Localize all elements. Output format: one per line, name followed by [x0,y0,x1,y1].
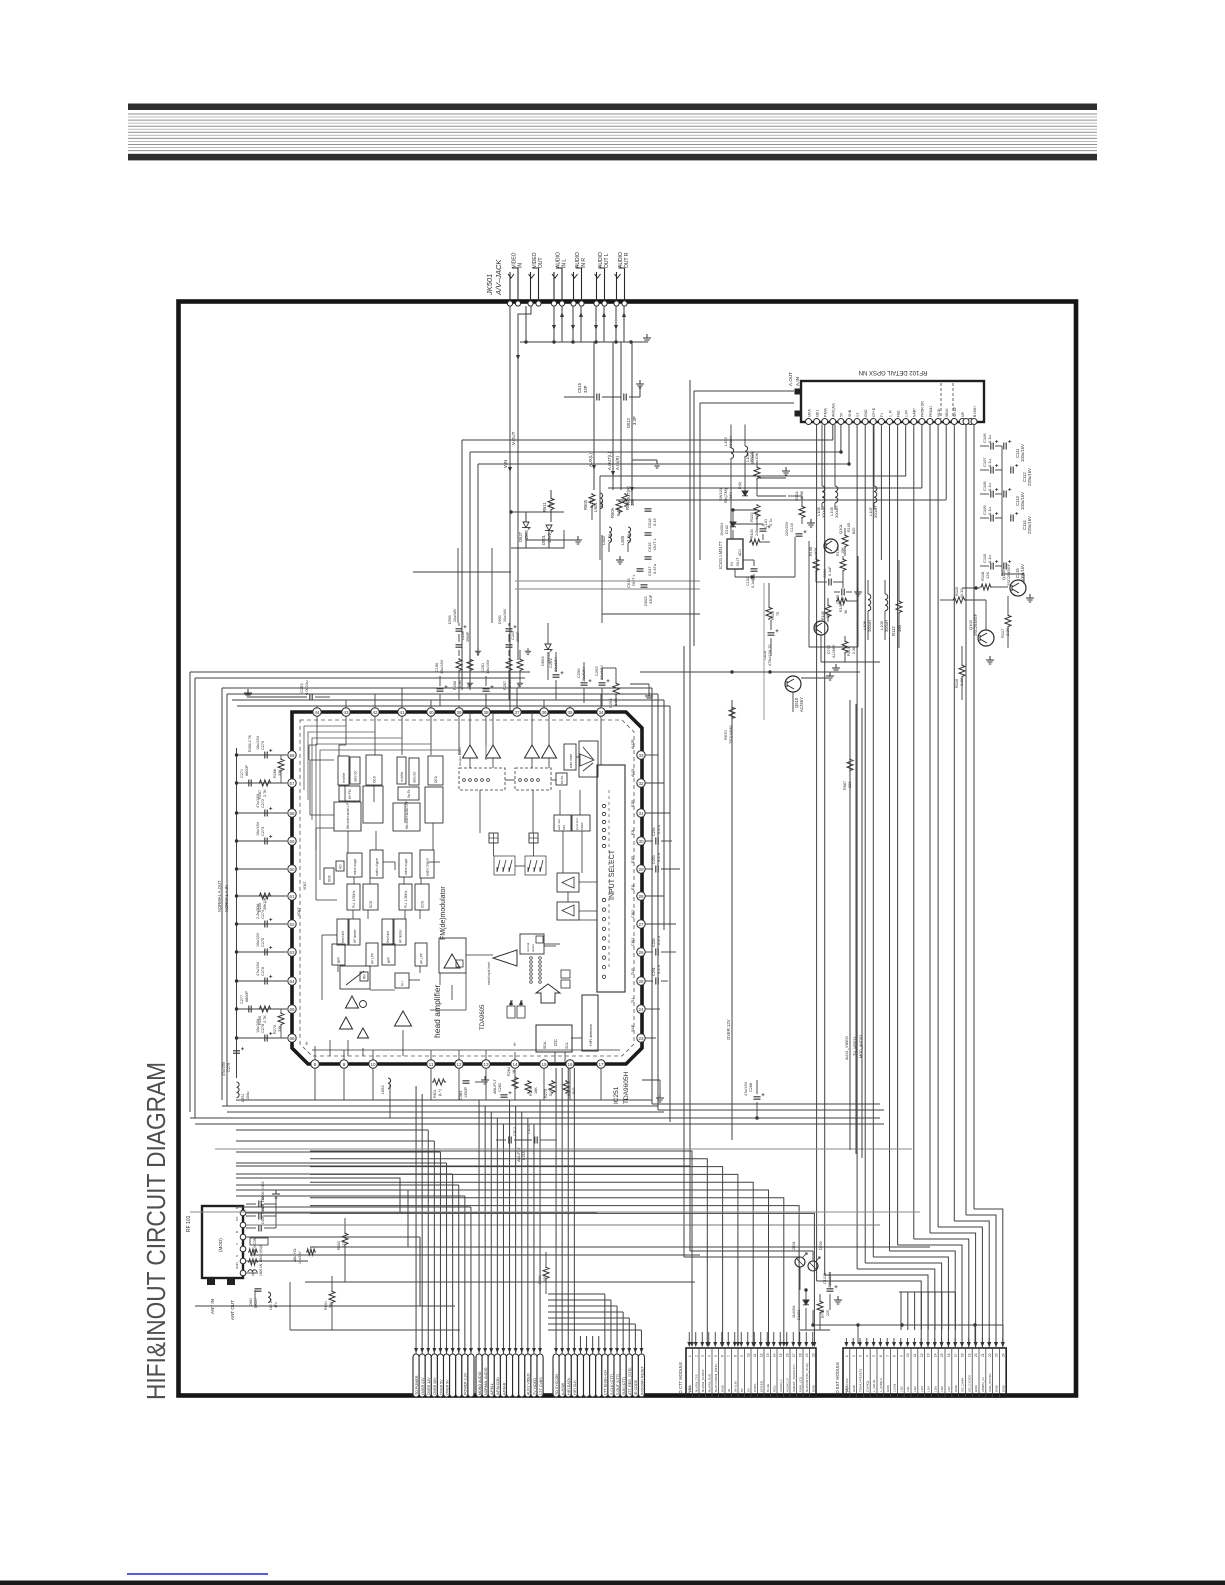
svg-text:R103: R103 [750,529,754,538]
resistor R602 223 [337,1218,348,1258]
svg-text:10u/16V: 10u/16V [581,667,586,682]
svg-text:L_VALID: L_VALID [872,1379,876,1392]
svg-text:19: 19 [805,1353,809,1357]
wire long verticals below cluster [355,700,508,1306]
connector pill TO SYSCON [553,1354,559,1397]
svg-text:LD7: LD7 [947,1386,951,1392]
wire right pin stubs [645,755,676,1038]
svg-text:65: 65 [289,1007,295,1012]
capacitor C613 0.47u [626,569,644,588]
connector pill SUN (CTT) [620,1354,626,1397]
svg-text:L505: L505 [620,535,625,545]
svg-text:43: 43 [343,710,349,715]
IC inner volume tri box 2 [557,902,579,920]
connector pin 16 AUDIO_R [784,1348,790,1397]
connector pin 13 LD4 [925,1348,931,1397]
ground zener cluster [526,536,582,544]
connector pill S.CLK (CTT) [608,1354,614,1397]
svg-text:R105: R105 [847,523,851,532]
connector pill OVER 9V [444,1354,450,1397]
wire cluster horizontals [413,535,700,631]
capacitor C261 13u/16V [481,659,494,706]
svg-text:36V: 36V [728,492,733,499]
svg-text:A/FM-L: A/FM-L [490,1383,494,1395]
svg-text:NORMAL A.OUT: NORMAL A.OUT [217,880,222,912]
svg-text:47u/16V: 47u/16V [222,1061,226,1076]
svg-text:HIFI DATA: HIFI DATA [567,1378,571,1395]
svg-text:2: 2 [852,1355,856,1357]
IC inner block amp [425,787,443,823]
svg-text:A1266Y: A1266Y [799,697,804,712]
svg-text:59: 59 [289,839,295,844]
svg-text:0.1u: 0.1u [987,507,992,515]
main schematic border frame [179,302,1077,1396]
svg-text:3K: 3K [844,609,848,614]
transistor Q610 A1266Y [785,676,804,712]
svg-text:17: 17 [598,1062,604,1067]
capacitor C274 2.2u/50V [235,903,287,927]
connector pin 21 22MHz_un [979,1348,985,1397]
IC inner bottom rail wires [305,1041,620,1060]
connector pill AUX1 VIDEO [525,1354,531,1397]
connector pin 23 GND [993,1348,999,1397]
svg-text:25: 25 [638,979,644,984]
IC inner block W+FM [339,786,360,801]
svg-text:E1L: E1L [631,884,635,890]
svg-text:OUT L: OUT L [631,574,636,586]
wire ring right verticals [648,342,813,1257]
svg-text:2SC2545GF: 2SC2545GF [973,613,978,636]
connector pin 22 UNR_5V/16V [986,1348,992,1397]
svg-text:L653: L653 [381,1086,385,1094]
svg-text:100u/16V: 100u/16V [1020,492,1025,510]
ground IC bottom right [642,1080,664,1102]
svg-text:1N4004: 1N4004 [792,1305,796,1318]
IC inner op-amp triangles left [340,971,412,1038]
svg-text:R505: R505 [583,499,588,510]
svg-text:PRO41: PRO41 [929,406,933,417]
connector pill A/FM-R [500,1354,506,1397]
svg-text:RF 101: RF 101 [186,1215,192,1232]
svg-text:33: 33 [638,753,644,758]
capacitor C104 0.1uF [816,566,843,586]
svg-text:58: 58 [289,811,295,816]
svg-text:C248: C248 [461,631,465,640]
svg-text:12: 12 [920,1353,924,1357]
wire RF102 A.OUT feed [700,403,794,560]
svg-text:10K: 10K [754,453,759,460]
svg-text:HF LPF: HF LPF [370,953,374,964]
resistor R117 2.2K [1000,596,1011,648]
inductor L105 300uH [829,425,839,519]
svg-text:C279: C279 [227,1063,231,1072]
svg-text:40: 40 [428,710,434,715]
svg-text:2.7K: 2.7K [263,789,267,797]
svg-text:D102: D102 [725,525,729,534]
connector pin 17 GND [952,1348,958,1397]
svg-text:KBER: KBER [580,822,584,830]
RF101 terminal ANT OUT [227,1278,235,1320]
inductor L501 300 [593,493,604,512]
svg-text:rectifier: rectifier [342,772,346,783]
svg-text:35: 35 [567,710,573,715]
svg-text:SH-CF: SH-CF [953,407,957,417]
svg-text:6800P: 6800P [245,765,249,776]
svg-text:noise suppr: noise suppr [404,858,408,875]
wire EXT cell stub feeds [844,1338,1004,1347]
svg-text:CVBS: CVBS [753,1384,757,1392]
svg-text:4.7K: 4.7K [754,511,759,520]
svg-text:HD: HD [338,864,342,869]
resistor R277 510 [563,1080,576,1096]
label C601 10u/16V [293,1248,316,1264]
svg-text:14: 14 [772,1353,776,1357]
svg-text:47u/16V: 47u/16V [744,1081,748,1096]
svg-text:M +: M + [400,980,404,986]
connector pill power nc [450,1354,456,1397]
IC inner block rectifier [397,757,406,784]
resistor R50A 5.1K [610,500,622,518]
svg-text:39: 39 [456,710,462,715]
IC inner block level det [382,919,393,945]
svg-text:E2R: E2R [631,800,635,807]
svg-text:47u/16V: 47u/16V [256,793,260,808]
svg-text:L60 1N: L60 1N [269,1299,273,1310]
svg-text:0.15: 0.15 [652,517,657,526]
IC inner block PLL 1.5MHz [347,884,360,910]
svg-text:R112: R112 [891,626,896,636]
regulator IC101 LM317T [718,539,743,569]
svg-text:C271: C271 [240,769,244,778]
svg-text:0.47u: 0.47u [652,564,657,574]
IC inner KBER box [572,815,590,831]
svg-text:OCA: OCA [372,775,376,783]
svg-text:OCA: OCA [434,775,438,783]
svg-text:GND: GND [1001,1384,1005,1392]
svg-text:GND: GND [864,409,868,417]
svg-text:MONO AUDIO: MONO AUDIO [478,1371,482,1395]
svg-text:SELK: SELK [945,408,949,417]
capacitor C116 220u/25V [785,521,807,536]
svg-text:9+: 9+ [513,1042,517,1046]
wire AUX(L) down [588,342,596,490]
svg-text:R611: R611 [433,1089,437,1098]
IC inner block RN [360,972,368,981]
svg-text:3.3K: 3.3K [959,677,964,686]
IC inner block HD [336,861,344,871]
svg-text:3: 3 [701,1355,705,1357]
connector pin 4 NU/SW_RxD [706,1348,712,1397]
capacitor C282 47u/16V [493,1079,512,1098]
svg-text:CTT ENSN-434: CTT ENSN-434 [604,1370,608,1395]
bus left drop wires from RF102 runs [462,440,616,690]
connector pin 17 SMART_SQUELCH [790,1348,796,1397]
svg-text:I2C_CLOCK: I2C_CLOCK [967,1374,971,1392]
svg-text:C276: C276 [261,967,265,976]
svg-text:P4(M): P4(M) [824,408,828,417]
svg-text:R611: R611 [542,502,547,512]
connector pin 3 TO(NU=RESET) [857,1348,863,1397]
svg-text:HIFI CLK: HIFI CLK [573,1380,577,1395]
jack J4 AUDIO IN R [572,252,588,302]
capacitor C110 0.1u [980,553,1002,570]
svg-text:57: 57 [289,781,295,786]
svg-text:R50A: R50A [610,507,615,518]
svg-text:32: 32 [638,781,644,786]
wire bus lower horizontals [190,1149,930,1330]
IC inner I2C box [536,1025,572,1052]
IC inner HIFI detector box [582,995,598,1051]
IC inner FM mod triangle [444,954,463,968]
connector pin 8 LC(A) [891,1348,897,1397]
svg-text:level det: level det [341,931,345,943]
svg-text:GND: GND [974,1384,978,1392]
svg-text:UB A: UB A [807,409,811,417]
svg-text:I2C: I2C [553,1038,558,1046]
svg-text:22: 22 [988,1353,992,1357]
resistor R112 100 [891,560,902,648]
svg-text:D512: D512 [626,417,631,428]
svg-text:TV VIDEO: TV VIDEO [533,1378,537,1395]
svg-text:A-HSW: A-HSW [561,1382,565,1395]
IC inner block BPF [332,944,345,965]
IC inner block HF LPF [415,943,427,966]
connector pill audio nc [519,1354,525,1397]
connector pill POWER 3.3V [462,1354,468,1397]
svg-text:LC(A): LC(A) [893,1384,897,1392]
svg-text:D593: D593 [498,615,502,624]
svg-text:2.2u: 2.2u [607,533,612,542]
svg-text:R264: R264 [507,1067,511,1076]
resistor R101 10K [749,452,790,496]
svg-text:ABL/FLT: ABL/FLT [493,1079,497,1094]
IC inner block detector [409,758,419,785]
LED D2R01 [792,1241,807,1267]
svg-text:INPUT SELECT: INPUT SELECT [609,849,616,900]
svg-text:OVER 12V: OVER 12V [726,1019,731,1040]
svg-text:LD2: LD2 [913,1386,917,1392]
svg-text:44: 44 [314,710,320,715]
capacitor C605 row2 [246,1195,276,1219]
svg-text:10u/16V: 10u/16V [256,1018,260,1033]
capacitor C254 0.47u [645,825,672,845]
svg-text:9+: 9+ [305,1041,309,1045]
capacitor C114 220u/16V [1011,512,1032,534]
inductor L502 2.2u [601,527,612,545]
wire CTT cell stub feeds [687,1332,815,1347]
svg-text:RED: RED [772,1385,776,1392]
svg-text:28: 28 [638,894,644,899]
wire A.OUT(L) down [607,342,621,490]
connector pin 15 LD6 [938,1348,944,1397]
svg-text:D593: D593 [448,615,452,624]
jack J6 AUDIO OUT R [615,252,631,302]
svg-text:(MOD): (MOD) [218,1238,223,1252]
svg-text:OVER 30V: OVER 30V [433,1377,437,1395]
capacitor C243 3900P stack [498,608,520,656]
IC inner block audio clipper [420,850,434,878]
svg-text:22MHz_un: 22MHz_un [981,1377,985,1392]
wires RF101 outputs [246,1213,880,1282]
wire feeds group A pills [236,1086,473,1354]
capacitor C518 0.15 [645,509,658,528]
wire LED feeds [800,1251,830,1330]
svg-text:select: select [531,944,535,952]
svg-text:BLUE: BLUE [766,1384,770,1392]
wire bus mid horizontals right of IC [652,930,940,1110]
IC right pin names [631,739,635,1032]
svg-text:DCO: DCO [369,900,373,908]
svg-text:NU/SW_CLOCK: NU/SW_CLOCK [701,1368,705,1392]
transistor Q102 A1266Y [814,621,836,658]
connector pin 14 RED [771,1348,777,1397]
svg-text:9: 9 [343,1062,346,1067]
svg-text:0.47u: 0.47u [657,965,661,974]
IC inner block noise suppr [399,853,412,877]
capacitor C606 row3 [246,1203,276,1231]
svg-text:NU/CONT.(5V_AUX): NU/CONT.(5V_AUX) [805,1363,809,1392]
connector pill OVER 30V [431,1354,437,1397]
connector pin 5 L_VALID [870,1348,876,1397]
svg-text:C612: C612 [513,1127,517,1136]
svg-text:TV_VIDEO: TV_VIDEO [853,1037,857,1056]
svg-text:240: 240 [755,530,759,536]
svg-text:R108: R108 [821,611,825,620]
jack pin circles on border [507,301,627,306]
connector pill CTT CVBS [537,1354,543,1397]
connector pin 3 NU/SW_CLOCK [699,1348,705,1397]
capacitor C113 100u/16V [1004,488,1025,510]
resistor R256 2.4K stack [453,648,481,700]
connector pin 16 LD7 [945,1348,951,1397]
capacitor C615 0.1u [645,533,658,552]
svg-text:R270: R270 [273,1025,277,1034]
svg-text:noise suppr: noise suppr [353,858,357,875]
IC inner block rectifier [338,756,349,785]
connector pill HIFI CLK [571,1354,577,1397]
svg-text:0.1uF: 0.1uF [828,566,832,576]
wire bundle to EXT module staircase [817,1209,1005,1348]
svg-text:41: 41 [399,710,405,715]
svg-text:12: 12 [456,1062,462,1067]
svg-text:W+FM: W+FM [348,789,352,799]
svg-text:GND: GND [995,1384,999,1392]
svg-text:VILID: VILID [937,408,941,417]
svg-text:NORMAL A.IN: NORMAL A.IN [224,885,229,912]
IC inner block amp [340,966,370,989]
svg-text:R268: R268 [273,769,277,778]
svg-text:C252: C252 [652,938,656,947]
svg-text:C273: C273 [261,827,265,836]
IC inner block DOC [324,868,334,884]
svg-text:13: 13 [483,1062,489,1067]
svg-text:10u/16V: 10u/16V [256,932,260,947]
zener D603 13V2A [540,623,552,680]
capacitor C279 47u/16V [222,1047,244,1076]
svg-text:60: 60 [289,867,295,872]
svg-text:5V: 5V [840,412,844,417]
jack J5 AUDIO OUT L [595,252,611,302]
svg-text:0.1u: 0.1u [987,435,992,443]
svg-text:6: 6 [879,1355,883,1357]
svg-text:C272: C272 [261,799,265,808]
svg-text:21: 21 [981,1353,985,1357]
svg-text:2SC2545GF: 2SC2545GF [1006,563,1011,586]
svg-text:IN L: IN L [562,259,568,268]
IC inner block HF limiter [394,919,406,945]
capacitor C264 10u/16V [548,652,564,700]
svg-text:1.8K: 1.8K [613,697,618,706]
net labels VOLT [297,881,307,916]
page bottom edge bar [0,1581,1225,1585]
IC U251 top pin row [313,708,605,716]
svg-text:D603: D603 [540,656,545,666]
inductor L106 300uH [862,580,872,640]
IC inner mode select box 1 [458,747,505,790]
svg-text:4.7u: 4.7u [769,519,773,526]
svg-text:Q101: Q101 [838,523,843,534]
svg-text:OVER 12V: OVER 12V [427,1377,431,1395]
bus right vertical bundle from RF102 [817,425,974,1282]
svg-text:R107: R107 [836,547,840,556]
svg-text:23: 23 [995,1353,999,1357]
svg-text:B: B [235,1231,239,1233]
svg-text:10u/16V: 10u/16V [553,657,558,672]
svg-text:18K: 18K [534,1087,538,1094]
svg-text:D527: D527 [518,531,523,542]
svg-text:HF limiter: HF limiter [398,928,402,943]
svg-text:UB 1: UB 1 [815,409,819,417]
svg-text:AUX1 VIDEO: AUX1 VIDEO [527,1373,531,1395]
svg-text:AUX(L): AUX(L) [588,453,593,467]
svg-text:IN R: IN R [581,258,587,268]
svg-text:detector: detector [353,770,357,782]
connector pill IR CODE [632,1354,638,1397]
capacitor C512 3.3P [624,394,640,429]
svg-text:2.2u/50V: 2.2u/50V [256,903,260,919]
svg-text:R667: R667 [843,781,847,790]
IC inner interconnect wires [310,760,466,1056]
connector pin 14 LD5 [931,1348,937,1397]
connector pin 12 GREEN [758,1348,764,1397]
capacitor C256 10u/16V [576,662,592,703]
IC inner right op-amp box [579,741,598,777]
svg-text:CP+D: CP+D [872,407,876,417]
wire top pin feeds above IC [317,688,601,708]
connector pin 19 NU/CONT.(5V_AUX) [803,1348,809,1397]
IC U251 TDA9605H outline [292,712,642,1064]
connector pin 1 NINV/12V [845,1355,849,1392]
svg-text:220u/16V: 220u/16V [1027,468,1032,486]
IC inner block OCA [428,756,443,785]
connector pill OVER 5V [437,1354,443,1397]
svg-text:CTT CVBS: CTT CVBS [539,1377,543,1395]
svg-text:C253: C253 [652,855,656,864]
resistor R269 2.7K [235,1006,287,1025]
diode D101 1N4004 [738,482,748,496]
svg-text:37: 37 [514,710,520,715]
wire feeds group B pills [477,1100,542,1354]
IC inner top pin drop wires [309,716,601,765]
svg-text:C282: C282 [498,1083,502,1092]
svg-text:OVER 21V: OVER 21V [421,1377,425,1395]
resistor R264 1K [507,1067,518,1090]
inductor L102 560uH [723,425,734,467]
svg-text:C383: C383 [459,1091,463,1100]
bus RF102 to left horizontal runs [462,440,946,500]
inductor L505 3.3u [620,527,631,545]
svg-text:C185: C185 [435,663,439,672]
